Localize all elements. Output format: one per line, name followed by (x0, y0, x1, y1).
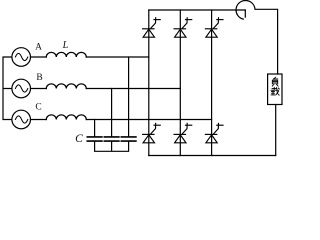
svg-text:L: L (62, 40, 69, 51)
svg-text:B: B (36, 73, 42, 83)
svg-text:C: C (75, 133, 83, 145)
svg-text:A: A (35, 42, 42, 52)
svg-text:C: C (35, 103, 41, 113)
